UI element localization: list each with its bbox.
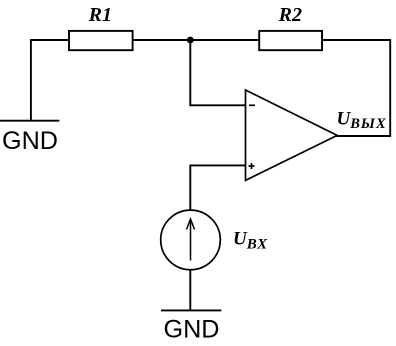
svg-text:R2: R2 (278, 4, 302, 26)
source U_vh: arrow shaft (190, 219, 192, 261)
svg-text:GND: GND (2, 127, 58, 155)
wire: top between R1 and R2 (133, 39, 260, 41)
wire: source bottom to ground (189, 270, 191, 311)
resistor R1: body (69, 31, 133, 50)
ground GND (bottom): bar symbol (161, 309, 221, 311)
wire: op-amp output (337, 135, 392, 137)
ground GND (left): bar symbol (0, 120, 59, 122)
svg-text:GND: GND (164, 316, 220, 344)
svg-text:R1: R1 (88, 4, 112, 26)
op-amp U1: triangle body (246, 90, 338, 180)
wire: junction down to inverting input (190, 40, 245, 105)
resistor R2: body (259, 31, 322, 50)
wire: left vertical down to ground (30, 39, 32, 121)
source U_vh: circle body (161, 210, 221, 270)
wire: left horizontal from GND corner to R1 (31, 39, 69, 41)
wire: non-inverting input horizontal and down to source (190, 165, 245, 210)
wire: from R2 to right edge (322, 39, 390, 41)
op-amp U1: inverting pin minus sign (249, 104, 255, 106)
wire: right vertical feedback (389, 39, 391, 136)
source U_vh: arrow head (187, 219, 195, 230)
op-amp U1: non-inverting pin plus sign (249, 163, 255, 169)
node: junction dot (187, 37, 194, 44)
